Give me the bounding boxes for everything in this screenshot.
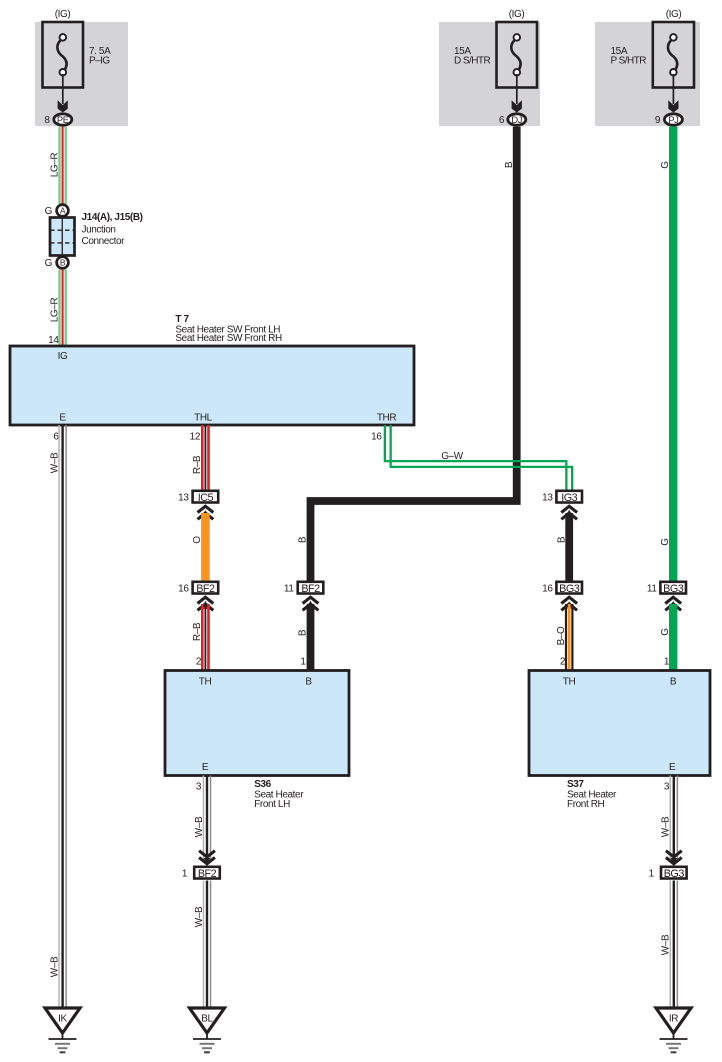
pin label TH inside S36 [199,677,212,688]
junction connector J14(A) J15(B) box [50,218,75,256]
wire label B-O [556,626,567,645]
wire W-B from S36 pin 3 to connector BF2 pin 1 [203,776,212,860]
fuse block panel P-IG [35,22,128,126]
svg-text:PJ: PJ [668,114,678,125]
svg-text:THL: THL [194,413,213,424]
svg-text:G: G [45,258,53,269]
connector IG3 pin 13 [542,491,582,504]
svg-text:BL: BL [201,1014,213,1025]
switch T7 Seat Heater SW box [10,346,414,425]
value label 15A P S/HTR [611,46,647,66]
svg-text:W–B: W–B [49,956,60,977]
arrow into connector PJ [668,100,678,112]
wire G from connector PJ to connector BG3 pin 11 [669,127,677,581]
wire label R-B lower [192,622,203,641]
wire label W-B lower left [49,956,60,977]
svg-text:G: G [660,538,671,546]
svg-text:IR: IR [669,1014,678,1025]
connector DJ pin 6 [499,114,526,126]
svg-text:12: 12 [190,432,201,443]
wire label B above S36 pin 1 [298,629,309,636]
wire label W-B above BF2 pin 1 [194,816,205,837]
svg-text:LG–R: LG–R [49,298,60,323]
ground BL [190,1008,225,1052]
label (IG) P S/HTR [666,9,682,20]
chevron arrows at BG3 pin 11 [665,597,681,610]
svg-text:W–B: W–B [194,816,205,837]
lead from fuse D S/HTR to connector DJ [516,74,518,104]
fuse block panel D S/HTR [439,22,540,126]
svg-text:8: 8 [44,115,50,126]
pin 12 label under T7 THL [190,432,201,443]
connector BG3 pin 11 [647,582,686,595]
wire label B at IG3 leg [556,536,567,543]
svg-text:BG3: BG3 [559,583,580,595]
svg-text:16: 16 [178,584,189,595]
wire label B above connector BF2 pin 11 [298,536,309,543]
svg-text:1: 1 [300,657,306,668]
wire label R-B upper [192,455,203,474]
label G at pin B [45,258,53,269]
wire label W-B upper left [49,452,60,473]
label (IG) D S/HTR [509,9,525,20]
svg-text:O: O [192,536,203,544]
pin 1 label above S37 [664,657,670,668]
svg-text:TH: TH [563,677,576,688]
svg-text:BF2: BF2 [198,868,217,880]
svg-text:Front LH: Front LH [254,799,290,810]
svg-text:P S/HTR: P S/HTR [611,55,647,66]
title T 7 Seat Heater SW Front LH/RH [175,314,282,344]
svg-text:BG3: BG3 [663,583,684,595]
svg-text:B: B [298,629,309,636]
fuse 7. 5A P&#8211;IG symbol [43,22,84,88]
chevron arrows into BG3 pin 1 [666,851,682,865]
svg-text:B–O: B–O [556,626,567,645]
pin label E inside S36 [202,762,209,773]
svg-text:G: G [45,206,53,217]
svg-text:B: B [60,258,66,268]
pin label THL inside T7 [194,413,213,424]
connector BG3 pin 1 [649,867,687,880]
connector BG3 pin 16 [542,582,582,595]
svg-text:IG: IG [58,351,68,362]
svg-text:Connector: Connector [82,236,126,247]
svg-text:13: 13 [542,493,553,504]
svg-text:THR: THR [377,413,397,424]
svg-text:3: 3 [664,782,670,793]
pin 2 label above S37 [560,657,566,668]
chevron arrows at BF2 pin 16 [198,597,214,610]
chevron arrows into BF2 pin 1 [199,851,215,865]
svg-text:A: A [60,206,66,216]
wire B-O from BG3 pin 16 to S37 pin 2 [565,604,574,671]
arrow into connector PE [58,100,68,112]
svg-text:11: 11 [284,584,294,595]
svg-text:S36: S36 [254,779,271,790]
chevron arrows at IC5 [198,506,214,519]
svg-text:B: B [305,677,312,688]
connector BF2 pin 16 [178,582,218,595]
title S37 Seat Heater Front RH [567,779,617,810]
svg-text:TH: TH [199,677,212,688]
svg-text:3: 3 [196,782,202,793]
junction connector pin B [57,257,69,269]
svg-text:B: B [298,536,309,543]
wire B from connector DJ to connector BF2 pin 11 [311,127,517,581]
svg-text:13: 13 [178,493,189,504]
value label 15A D S/HTR [454,46,490,66]
junction connector pin A [57,205,69,217]
svg-text:B: B [504,161,515,168]
svg-text:W–B: W–B [194,906,205,927]
svg-text:W–B: W–B [661,934,672,955]
wire W-B from S37 pin 3 to connector BG3 pin 1 [670,776,679,860]
pin 14 label of T7 [48,335,59,346]
svg-text:1: 1 [664,657,670,668]
svg-text:Junction: Junction [82,225,116,236]
ground IR [656,1008,691,1052]
svg-text:B: B [556,536,567,543]
pin 1 label above S36 [300,657,306,668]
connector PJ pin 9 [655,114,683,126]
value label 7. 5A P&#8211;IG [89,46,111,66]
fuse block panel P S/HTR [595,22,700,126]
svg-text:11: 11 [647,584,657,595]
wire LG-R from junction connector to T7 pin 14 [58,270,67,348]
wire W-B from BF2 pin 1 to ground BL [203,881,212,1009]
pin label B inside S37 [670,677,677,688]
wire label W-B above ground BL [194,906,205,927]
pin label B inside S36 [305,677,312,688]
ground IK [45,1008,80,1052]
connector PE pin 8 [44,114,71,126]
svg-text:PE: PE [57,114,69,125]
junction connector title J14(A), J15(B) [82,212,143,247]
chevron arrows at BF2 pin 11 [303,597,319,610]
svg-text:BF2: BF2 [196,583,215,595]
svg-text:Front RH: Front RH [567,799,605,810]
svg-text:IG3: IG3 [561,492,577,504]
svg-text:G–W: G–W [441,451,464,462]
svg-text:6: 6 [499,115,505,126]
wire label G above connector BG3 pin 11 [660,538,671,546]
connector BF2 pin 1 [182,867,220,880]
svg-text:(IG): (IG) [55,9,71,20]
svg-text:IK: IK [58,1014,67,1025]
svg-text:IC5: IC5 [198,492,214,504]
svg-text:E: E [669,762,676,773]
wire G-W from T7 pin 16 to connector IG3 [385,425,572,490]
wire label G at PJ wire [660,161,671,169]
svg-text:1: 1 [649,869,655,880]
svg-text:2: 2 [560,657,566,668]
wire label O [192,536,203,544]
pin 6 label under T7 E [53,432,59,443]
connector IC5 pin 13 [178,491,218,504]
svg-text:Seat Heater SW Front RH: Seat Heater SW Front RH [175,333,282,344]
heater S36 Seat Heater Front LH box [165,671,349,776]
svg-text:R–B: R–B [192,622,203,641]
svg-text:BG3: BG3 [664,868,685,880]
pin 16 label under T7 THR [371,432,382,443]
wire label LG-R lower [49,298,60,323]
chevron arrows at BG3 pin 16 [561,597,577,610]
wire label B at DJ wire [504,161,515,168]
svg-text:D S/HTR: D S/HTR [454,55,490,66]
svg-text:R–B: R–B [192,455,203,474]
svg-text:B: B [670,677,677,688]
title S36 Seat Heater Front LH [254,779,304,810]
svg-text:16: 16 [542,584,553,595]
svg-text:14: 14 [48,335,59,346]
chevron arrows at IG3 [561,506,577,519]
wire label LG-R upper [49,153,60,178]
pin 3 label under S36 [196,782,202,793]
wire label G above S37 pin 1 [660,628,671,636]
label G at pin A [45,206,53,217]
wire W-B from T7 pin 6 to ground IK [58,425,67,1008]
wire R-B from BF2 pin 16 to S36 pin 2 [201,604,210,671]
lead from fuse P S/HTR to connector PJ [672,74,674,104]
connector BF2 pin 11 [284,582,323,595]
wire label W-B above ground IR [661,934,672,955]
pin label TH inside S37 [563,677,576,688]
svg-text:G: G [660,161,671,169]
wire W-B from BG3 pin 1 to ground IR [670,881,679,1009]
arrow into connector DJ [512,100,522,112]
svg-text:BF2: BF2 [301,583,320,595]
wire label W-B above BG3 pin 1 [661,816,672,837]
svg-text:P–IG: P–IG [89,55,110,66]
wire label G-W [441,451,464,462]
wire B from IG3 to connector BG3 pin 16 [565,513,573,581]
heater S37 Seat Heater Front RH box [529,671,710,776]
svg-text:LG–R: LG–R [49,153,60,178]
wire B from BF2 pin 11 to S36 pin 1 [307,604,315,671]
svg-text:G: G [660,628,671,636]
fuse 15A D S/HTR symbol [497,22,538,88]
wire O from IC5 to connector BF2 pin 16 [201,513,210,581]
svg-text:16: 16 [371,432,382,443]
svg-text:2: 2 [196,657,202,668]
svg-text:J14(A), J15(B): J14(A), J15(B) [82,212,143,223]
pin label THR inside T7 [377,413,397,424]
pin label E inside S37 [669,762,676,773]
pin label E inside T7 [59,413,66,424]
wire R-B from T7 pin 12 to connector IC5 [201,425,210,490]
fuse 15A P S/HTR symbol [653,22,694,88]
wire LG-R from PE to junction connector [58,127,67,204]
svg-text:(IG): (IG) [509,9,525,20]
lead from fuse P-IG to connector PE [62,74,64,104]
svg-text:1: 1 [182,869,188,880]
svg-text:DJ: DJ [511,114,522,125]
svg-text:E: E [59,413,66,424]
svg-text:9: 9 [655,115,661,126]
label (IG) P-IG [55,9,71,20]
svg-text:W–B: W–B [49,452,60,473]
pin label IG inside T7 [58,351,68,362]
svg-text:(IG): (IG) [666,9,682,20]
wire G from BG3 pin 11 to S37 pin 1 [669,604,677,671]
pin 3 label under S37 [664,782,670,793]
svg-text:S37: S37 [567,779,584,790]
svg-text:W–B: W–B [661,816,672,837]
pin 2 label above S36 [196,657,202,668]
svg-text:E: E [202,762,209,773]
